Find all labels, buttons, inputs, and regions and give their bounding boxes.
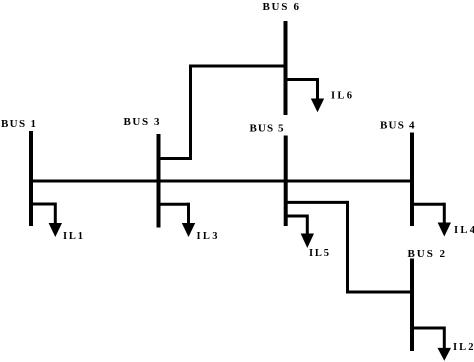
wire IL1 branch horizontal [31, 203, 55, 206]
wire IL4 branch vertical [443, 203, 446, 225]
svg-text:BUS 4: BUS 4 [380, 120, 415, 132]
svg-text:IL2: IL2 [453, 342, 474, 353]
wire IL6 branch horizontal [286, 78, 318, 81]
wire corner down (vertical) [189, 65, 192, 159]
arrow load IL1 [49, 223, 62, 237]
wire IL3 branch vertical [187, 203, 190, 225]
bus bar BUS 4 [410, 133, 414, 227]
main bus tie line (horizontal) [31, 180, 412, 183]
svg-text:IL4: IL4 [454, 225, 474, 236]
arrow load IL5 [301, 234, 314, 249]
bus bar BUS 6 [284, 21, 288, 115]
wire corner to BUS3 (horizontal) [159, 157, 193, 160]
wire IL2 branch horizontal [412, 327, 444, 330]
svg-text:IL1: IL1 [63, 231, 83, 242]
wire IL6 branch vertical [316, 78, 319, 101]
arrow load IL2 [438, 348, 452, 361]
svg-text:BUS 1: BUS 1 [1, 118, 36, 130]
wire IL5 branch vertical [306, 215, 309, 237]
wire IL2 branch vertical [443, 327, 446, 351]
svg-text:BUS 3: BUS 3 [124, 116, 161, 128]
wire BUS5 to BUS2 vertical [346, 201, 349, 292]
wire BUS5 to BUS2 horizontal upper [286, 201, 348, 204]
wire IL1 branch vertical [54, 203, 57, 226]
arrow load IL6 [311, 99, 324, 113]
arrow load IL4 [438, 223, 451, 237]
wire IL4 branch horizontal [412, 203, 444, 206]
arrow load IL3 [182, 223, 195, 237]
svg-text:IL3: IL3 [197, 231, 218, 242]
bus bar BUS 5 [284, 136, 288, 227]
svg-text:BUS 2: BUS 2 [408, 248, 446, 260]
wire BUS5 to BUS2 horizontal lower [346, 291, 412, 294]
bus bar BUS 2 [410, 259, 414, 352]
svg-text:BUS 5: BUS 5 [250, 122, 285, 134]
svg-text:BUS 6: BUS 6 [263, 1, 300, 13]
svg-text:IL5: IL5 [309, 248, 329, 259]
wire BUS6 to corner (horizontal) [191, 65, 286, 68]
bus bar BUS 1 [29, 131, 33, 226]
bus bar BUS 3 [157, 134, 161, 228]
wire IL3 branch horizontal [159, 203, 189, 206]
svg-text:IL6: IL6 [331, 90, 352, 101]
wire IL5 branch horizontal [286, 215, 308, 218]
